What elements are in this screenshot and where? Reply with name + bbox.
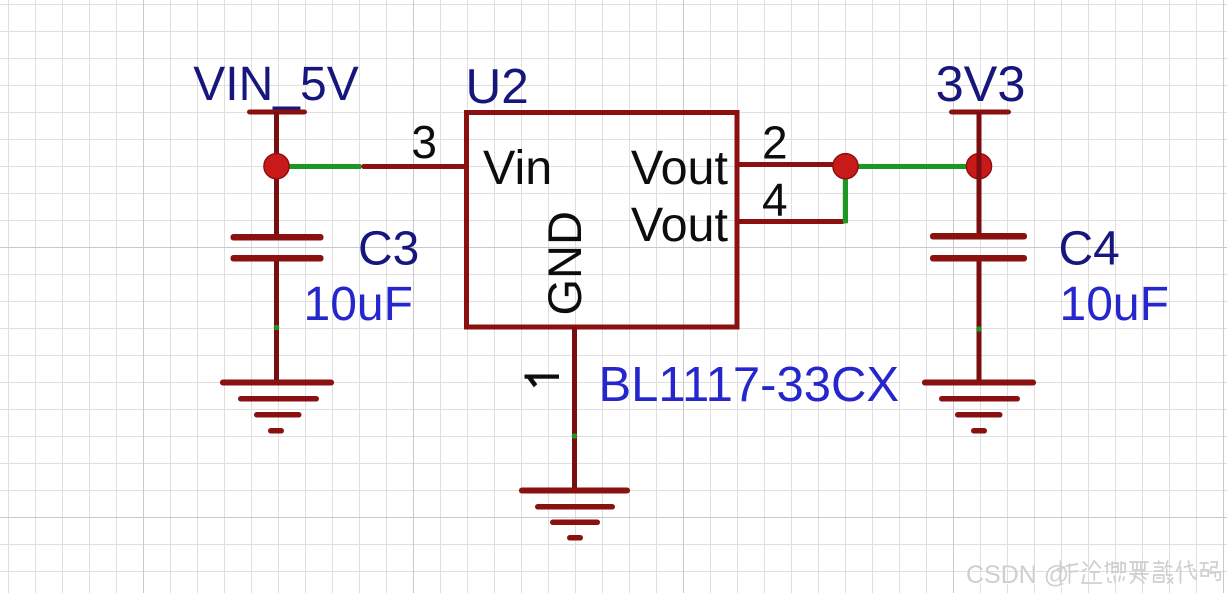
wire pin2 node to 3V3 node [845, 164, 979, 169]
ground symbol (C4) [922, 380, 1036, 434]
wire pin4 up to pin2 node [843, 166, 848, 223]
svg-text:4: 4 [762, 174, 788, 226]
wire 3V3 vertical [977, 112, 982, 236]
wire VIN_5V vertical [274, 112, 279, 237]
svg-text:GND: GND [538, 211, 591, 315]
junction node VIN_5V/C3 [264, 154, 289, 179]
ground symbol (C3) [220, 380, 334, 434]
junction dot on pin 1 wire [572, 433, 578, 439]
svg-text:Vout: Vout [631, 141, 729, 195]
pin 1 wire (GND) [572, 327, 577, 491]
IC U2 BL1117-33CX body [467, 113, 738, 328]
capacitor C3 [231, 234, 324, 262]
wire VIN_5V to pin 3 (net segment) [277, 164, 361, 169]
watermark [966, 561, 1070, 590]
power port VIN_5V [193, 58, 358, 115]
wire C3 to ground [274, 262, 279, 383]
pin 4 wire (Vout) [737, 219, 846, 224]
pin 3 wire (Vin) [361, 164, 466, 169]
junction dot on C3 ground wire [274, 325, 280, 331]
svg-text:C3: C3 [358, 223, 419, 276]
svg-text:C4: C4 [1059, 223, 1120, 276]
junction node 3V3/C4 [966, 154, 991, 179]
svg-text:3: 3 [411, 116, 437, 168]
svg-text:10uF: 10uF [1060, 278, 1169, 331]
svg-text:VIN_5V: VIN_5V [193, 58, 358, 111]
svg-text:BL1117-33CX: BL1117-33CX [599, 358, 900, 412]
power port 3V3 [936, 55, 1026, 115]
svg-text:2: 2 [762, 117, 788, 169]
svg-text:U2: U2 [466, 59, 529, 114]
pin 2 wire (Vout) [737, 162, 846, 167]
svg-text:CSDN @: CSDN @ [966, 561, 1069, 589]
junction node pin2/pin4 [833, 154, 858, 179]
svg-text:3V3: 3V3 [936, 55, 1026, 112]
svg-text:10uF: 10uF [304, 278, 413, 331]
ground symbol (U2 pin 1) [519, 488, 630, 541]
pin number 1 (rotated) [525, 375, 560, 388]
svg-text:Vout: Vout [631, 198, 729, 252]
capacitor C4 [930, 233, 1027, 262]
svg-text:Vin: Vin [483, 141, 552, 195]
wire C4 to ground [977, 262, 982, 383]
junction dot on C4 ground wire [976, 326, 982, 332]
